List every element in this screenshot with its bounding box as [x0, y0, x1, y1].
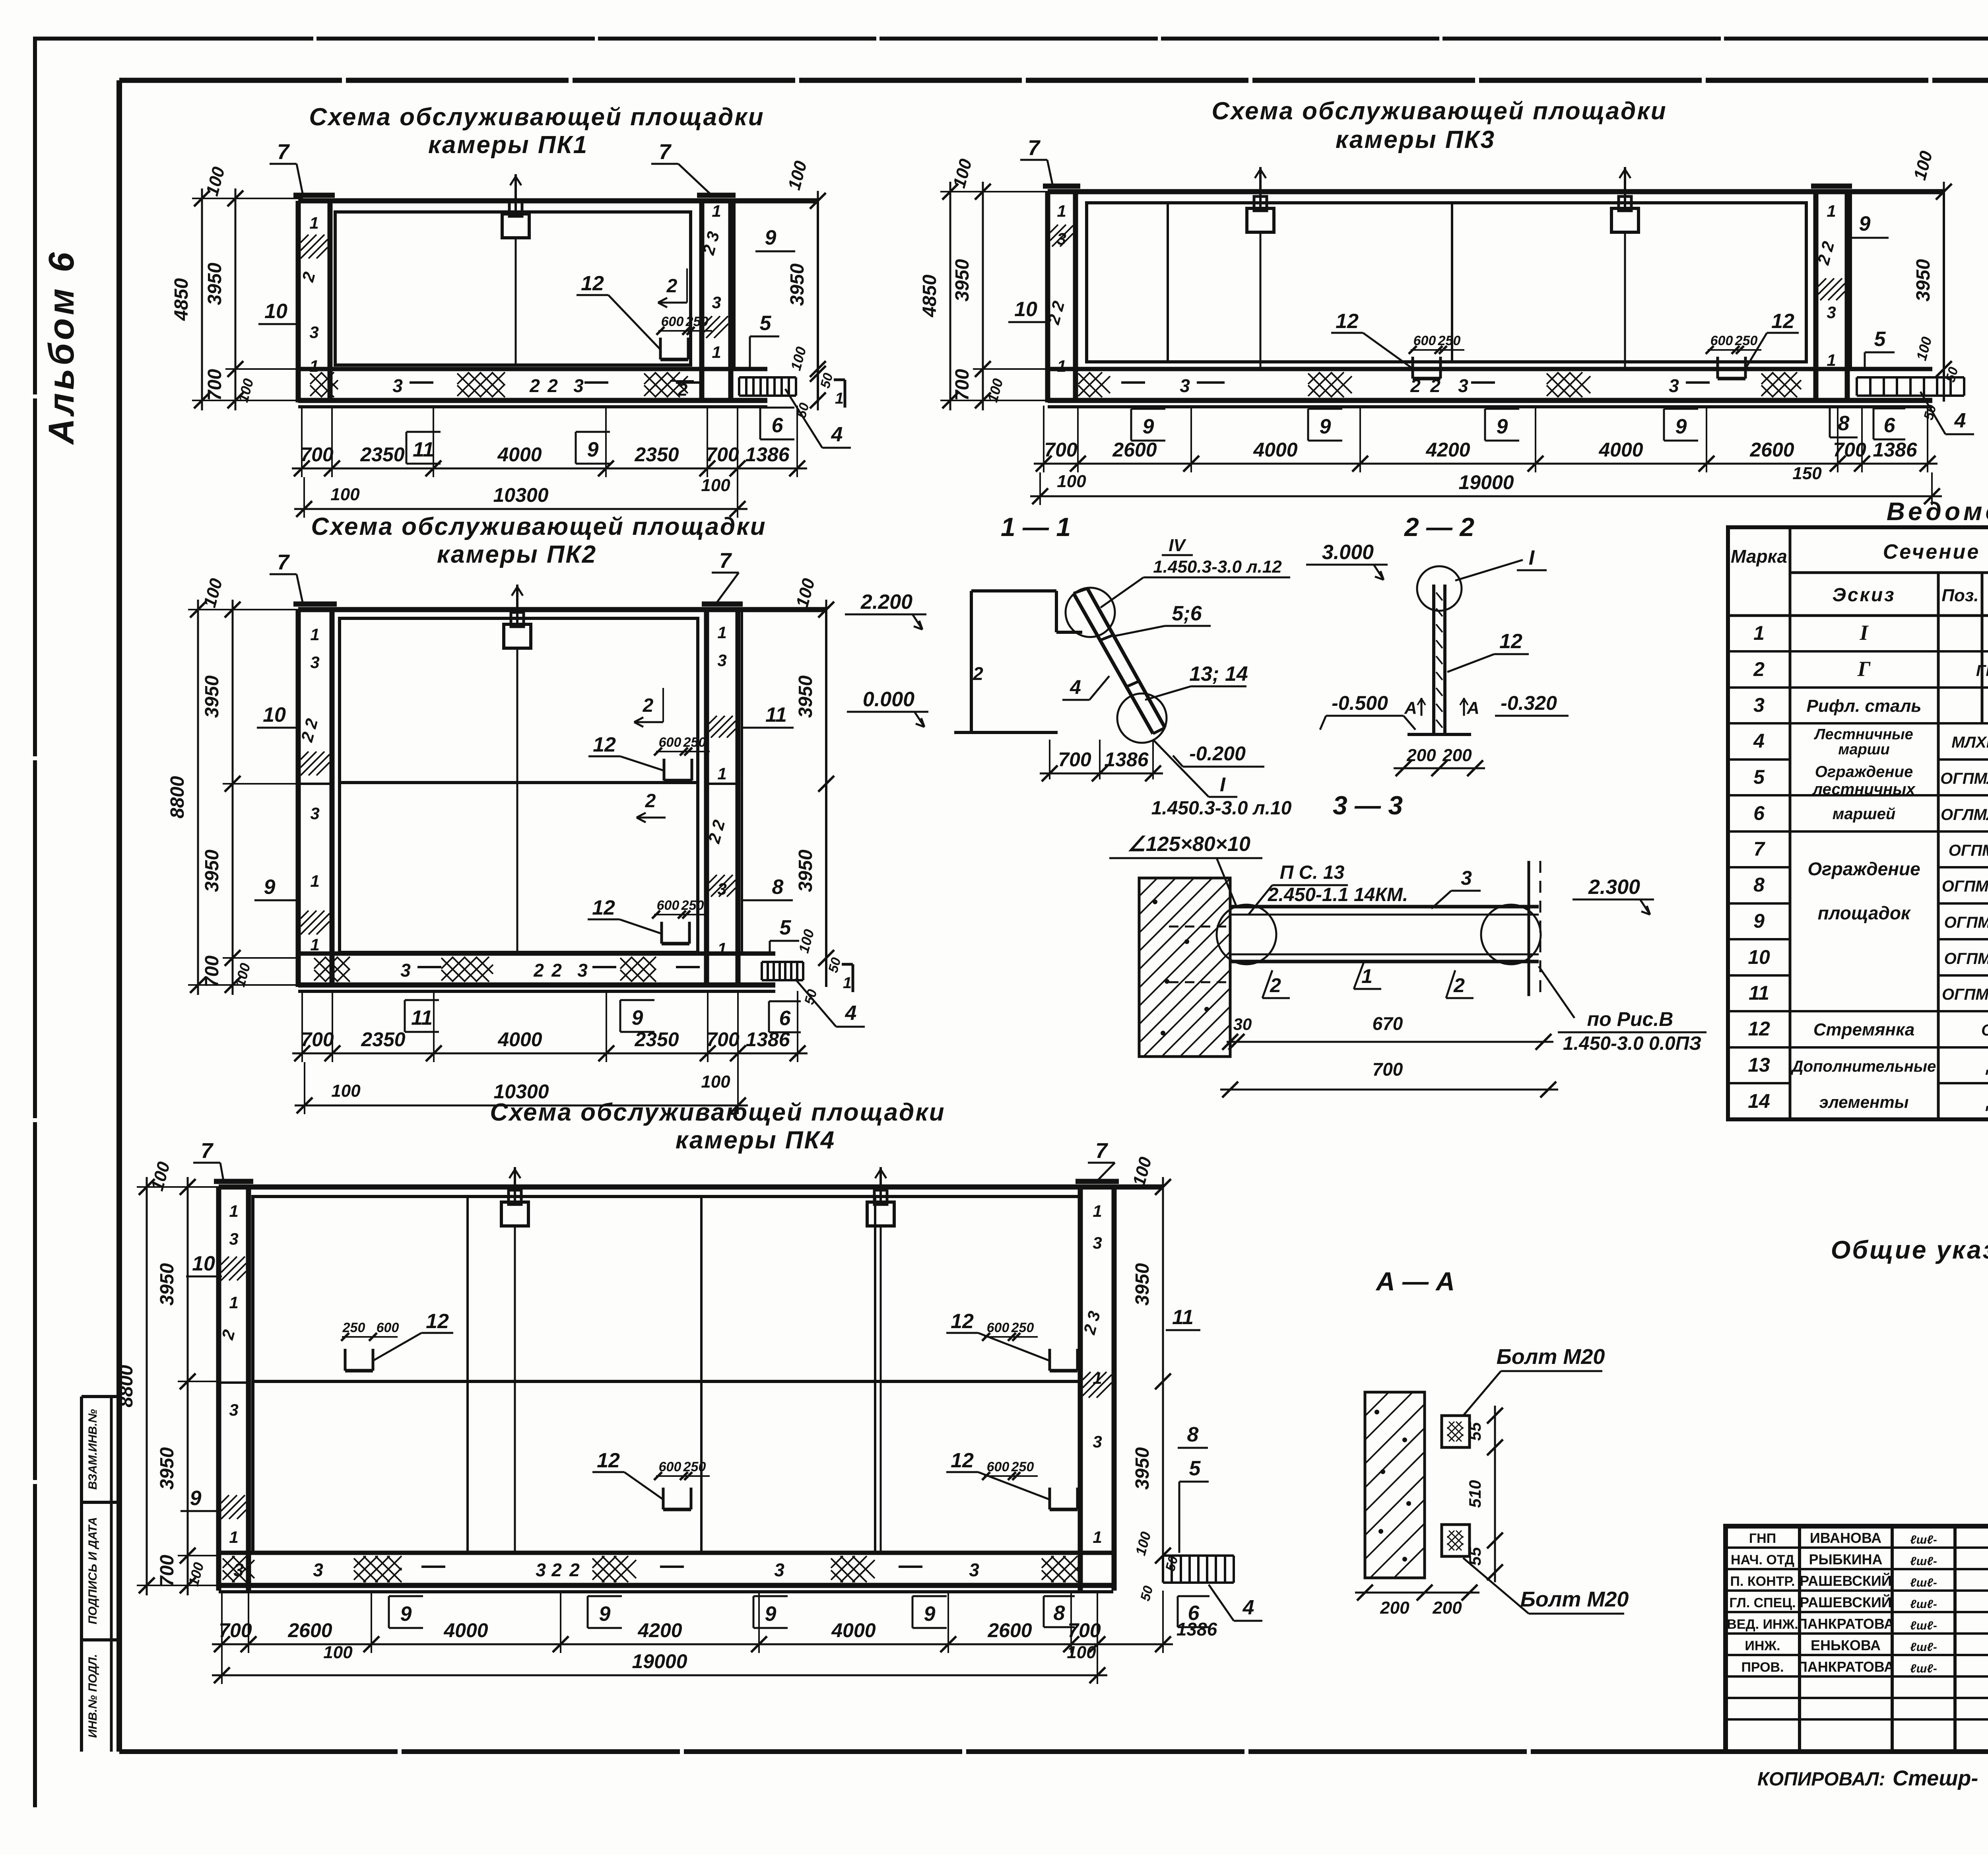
svg-text:6: 6 [779, 1007, 791, 1030]
svg-text:1386: 1386 [1104, 748, 1149, 771]
svg-text:∠125×80×10: ∠125×80×10 [1127, 833, 1250, 856]
PK4 floor arrows [421, 1566, 922, 1568]
svg-text:12: 12 [1748, 1018, 1770, 1040]
svg-text:5: 5 [780, 916, 792, 939]
svg-text:А — А: А — А [1375, 1266, 1455, 1296]
svg-text:30: 30 [1233, 1015, 1252, 1033]
PK2 box 6 [769, 1001, 801, 1032]
PK2 label 4 [795, 979, 865, 1027]
PK3 bay dividers [1168, 203, 1452, 362]
svg-text:2350: 2350 [634, 1028, 679, 1051]
svg-text:12: 12 [426, 1310, 449, 1333]
svg-text:11: 11 [411, 1006, 433, 1030]
svg-text:3: 3 [774, 1560, 784, 1580]
PK2 right dims [792, 576, 844, 1006]
svg-text:3950: 3950 [1132, 1447, 1153, 1490]
general note [1831, 1235, 1988, 1264]
svg-text:ℓшℓ-: ℓшℓ- [1910, 1576, 1937, 1589]
svg-text:камеры ПК3: камеры ПК3 [1336, 126, 1495, 153]
svg-text:3: 3 [229, 1401, 238, 1419]
svg-text:6: 6 [1884, 414, 1896, 437]
svg-text:ℓшℓ-: ℓшℓ- [1910, 1598, 1937, 1611]
svg-text:ℓшℓ-: ℓшℓ- [1910, 1533, 1937, 1546]
section 3-3 labels 2-1-2 [1262, 962, 1474, 998]
svg-text:ВЗАМ.ИНВ.№: ВЗАМ.ИНВ.№ [86, 1409, 99, 1490]
PK4 bottom dims row2 [212, 1643, 1107, 1683]
svg-text:2: 2 [547, 375, 558, 396]
svg-text:5;6: 5;6 [1172, 602, 1202, 625]
svg-text:3950: 3950 [157, 1447, 178, 1490]
svg-text:3 — 3: 3 — 3 [1333, 791, 1403, 820]
PK2 mid line [298, 783, 738, 784]
PK2 chamber liner [332, 618, 707, 954]
section 3-3 elevation 2.300 [1573, 876, 1654, 915]
section 1-1 title [1001, 512, 1071, 542]
section A-A note bolt M20 top [1463, 1345, 1605, 1416]
svg-text:3: 3 [392, 375, 403, 396]
PK1 label 4 [785, 389, 851, 448]
PK1 dim 600-250 [656, 314, 712, 335]
section 1-1 elevation 2.200 [845, 591, 926, 629]
svg-text:А: А [1404, 698, 1417, 718]
PK1 bottom dims row1 [292, 443, 807, 476]
svg-text:4: 4 [1753, 730, 1765, 752]
svg-text:9: 9 [1320, 415, 1331, 438]
svg-text:5: 5 [1189, 1457, 1201, 1480]
svg-text:камеры ПК1: камеры ПК1 [428, 131, 588, 159]
svg-text:7: 7 [277, 550, 290, 574]
title block grid left [1726, 1526, 1988, 1752]
svg-text:ℓшℓ-: ℓшℓ- [1910, 1641, 1937, 1654]
PK3 vent 1 [1247, 167, 1274, 369]
svg-text:5: 5 [1753, 766, 1765, 788]
svg-text:8800: 8800 [116, 1365, 137, 1407]
svg-text:НАЧ. ОТД: НАЧ. ОТД [1731, 1552, 1794, 1568]
svg-text:1: 1 [1057, 357, 1066, 375]
PK2 label 7 left [270, 550, 303, 604]
svg-text:Стешр-: Стешр- [1893, 1766, 1978, 1790]
svg-text:IV: IV [1169, 536, 1186, 555]
svg-text:700: 700 [1373, 1059, 1403, 1080]
PK4 ladder [1163, 1556, 1234, 1583]
PK4 vent 2 [867, 1167, 894, 1551]
PK4 label 4 [1209, 1585, 1262, 1621]
svg-text:13: 13 [1748, 1054, 1770, 1076]
kopiroval note [1757, 1766, 1978, 1790]
PK1 left dim 4850 [171, 188, 210, 410]
svg-text:2: 2 [643, 695, 654, 716]
svg-text:3: 3 [573, 375, 584, 396]
svg-text:3: 3 [1093, 1233, 1102, 1252]
svg-text:2: 2 [645, 791, 656, 812]
svg-text:1: 1 [1753, 622, 1765, 644]
svg-text:ГНП: ГНП [1749, 1531, 1776, 1546]
svg-text:8800: 8800 [167, 776, 188, 818]
PK3 bottom dims row2 [1030, 464, 1942, 504]
table col sostav [1940, 624, 1988, 1111]
svg-text:1: 1 [309, 357, 318, 375]
PK4 label 10 [186, 1252, 222, 1276]
svg-text:1.450.3-3.0 л.12: 1.450.3-3.0 л.12 [1153, 557, 1282, 577]
svg-text:12: 12 [951, 1449, 974, 1472]
PK4 top line [219, 1185, 1163, 1190]
PK3 ladder [1857, 377, 1964, 396]
svg-text:4000: 4000 [497, 1028, 542, 1051]
svg-text:ПАНКРАТОВА: ПАНКРАТОВА [1797, 1659, 1894, 1675]
svg-text:3950: 3950 [795, 849, 816, 892]
svg-text:200: 200 [1380, 1598, 1409, 1618]
svg-text:1: 1 [717, 623, 726, 642]
svg-text:2350: 2350 [361, 1028, 405, 1051]
PK4 boxes 9 [389, 1596, 1075, 1628]
PK4 right dims [1129, 1155, 1181, 1603]
PK4 mid line [219, 1381, 1080, 1383]
svg-text:-0.500: -0.500 [1332, 692, 1388, 714]
svg-text:9: 9 [587, 438, 599, 461]
svg-text:9: 9 [765, 1603, 777, 1626]
svg-text:Лестничные: Лестничные [1813, 726, 1913, 743]
svg-text:РАШЕВСКИЙ: РАШЕВСКИЙ [1800, 1594, 1891, 1610]
section 1-1 label 2 [971, 660, 983, 692]
PK3 vent 2 [1611, 167, 1639, 369]
svg-text:1: 1 [1093, 1528, 1102, 1546]
svg-text:3950: 3950 [204, 262, 225, 305]
svg-text:100: 100 [331, 1081, 361, 1101]
svg-text:150: 150 [1792, 464, 1822, 483]
svg-text:3: 3 [717, 651, 726, 670]
svg-text:2: 2 [533, 960, 544, 981]
svg-text:8: 8 [1753, 874, 1765, 896]
svg-text:9: 9 [1143, 415, 1154, 438]
svg-text:Ограждение: Ограждение [1807, 859, 1920, 879]
PK3 box 6 [1873, 408, 1905, 439]
PK1 bottom dims row2 [294, 476, 747, 517]
svg-text:по Рис.В: по Рис.В [1587, 1008, 1673, 1030]
svg-text:3950: 3950 [157, 1263, 178, 1305]
PK4 right wall [1076, 1181, 1119, 1591]
album label [42, 249, 82, 445]
svg-text:I: I [1220, 773, 1226, 796]
section A-A bolt top [1442, 1416, 1470, 1447]
PK3 left dim 4850 [919, 182, 958, 410]
svg-text:Схема обслуживающей площадки: Схема обслуживающей площадки [490, 1099, 945, 1126]
section 3-3 note PS13 [1248, 862, 1415, 915]
svg-text:Общие указания см. лист 3: Общие указания см. лист 3 [1831, 1235, 1988, 1264]
svg-text:А: А [1466, 698, 1479, 718]
svg-text:камеры ПК2: камеры ПК2 [437, 541, 597, 568]
PK1 cut flag [834, 380, 845, 408]
svg-text:9: 9 [765, 226, 777, 249]
table title [1887, 497, 1988, 526]
svg-text:7: 7 [719, 549, 732, 573]
svg-text:9: 9 [1859, 212, 1871, 235]
svg-text:1: 1 [310, 625, 319, 644]
svg-text:-0.320: -0.320 [1501, 692, 1557, 714]
section 3-3 note ris [1539, 966, 1706, 1054]
svg-text:3950: 3950 [952, 259, 973, 301]
svg-text:700: 700 [204, 369, 225, 401]
svg-text:4850: 4850 [919, 274, 940, 317]
svg-text:700: 700 [202, 956, 223, 987]
svg-text:4000: 4000 [1598, 439, 1643, 461]
section 2-2 title [1404, 512, 1474, 542]
svg-text:1: 1 [229, 1293, 238, 1312]
section 2-2 elevation 3.000 [1306, 541, 1388, 580]
svg-text:Г: Г [1857, 657, 1871, 681]
svg-text:9: 9 [1753, 910, 1765, 932]
svg-text:2: 2 [666, 276, 678, 297]
PK3 floor [1048, 369, 1932, 407]
section 1-1 stair flight [1066, 588, 1167, 743]
title block signatures [1727, 1530, 1937, 1675]
PK1 label 7 left [270, 140, 303, 195]
PK4 bay dividers [468, 1197, 875, 1551]
PK1 box 6 [760, 408, 794, 439]
svg-text:4200: 4200 [637, 1619, 682, 1641]
svg-text:элементы: элементы [1819, 1093, 1908, 1111]
svg-text:МЛХШ60 -24.6: МЛХШ60 -24.6 [1951, 734, 1988, 751]
svg-text:10: 10 [1014, 298, 1037, 321]
svg-text:2350: 2350 [360, 443, 404, 466]
svg-text:3950: 3950 [202, 675, 223, 718]
svg-text:1: 1 [712, 343, 721, 361]
PK2 label 5 [770, 916, 799, 954]
svg-text:10: 10 [192, 1252, 215, 1275]
svg-text:3950: 3950 [1913, 259, 1934, 301]
PK1 label 7 right [651, 140, 712, 195]
svg-text:площадок: площадок [1818, 903, 1911, 923]
svg-text:Эскиз: Эскиз [1832, 585, 1895, 606]
svg-text:14: 14 [1748, 1090, 1770, 1112]
svg-text:3: 3 [969, 1560, 979, 1580]
PK2 floor [298, 954, 775, 991]
PK1 vent [502, 174, 529, 365]
PK4 vent 1 [501, 1167, 528, 1551]
PK1 box 11 [406, 432, 441, 464]
svg-text:200: 200 [1406, 746, 1436, 765]
svg-text:200: 200 [1442, 746, 1472, 765]
PK3 left dim 3950 [949, 157, 1006, 410]
svg-text:4000: 4000 [831, 1619, 876, 1641]
svg-text:4: 4 [1070, 676, 1081, 698]
section A-A bolt bottom [1442, 1525, 1470, 1556]
PK4 chamber liner [248, 1197, 1080, 1553]
svg-text:3: 3 [229, 1230, 238, 1248]
svg-text:4850: 4850 [171, 278, 192, 321]
PK3 label 5 [1865, 328, 1895, 370]
svg-text:Сечение: Сечение [1883, 540, 1980, 563]
svg-text:13; 14: 13; 14 [1189, 662, 1248, 686]
PK4 left dim 3950 [148, 1160, 207, 1595]
svg-text:3950: 3950 [787, 263, 808, 306]
svg-text:ОГПМХЭб-10.48: ОГПМХЭб-10.48 [1944, 950, 1988, 967]
svg-text:СХ- 34: СХ- 34 [1981, 1022, 1988, 1039]
svg-text:1: 1 [309, 214, 318, 232]
svg-text:2: 2 [678, 380, 688, 400]
svg-text:7: 7 [1753, 838, 1765, 860]
PK2 label 12 a [588, 733, 710, 781]
section 1-1 dims [1040, 740, 1163, 781]
svg-text:5: 5 [760, 312, 772, 335]
section 1-1 note 5-6 [1113, 602, 1211, 636]
svg-text:4: 4 [845, 1002, 857, 1025]
svg-text:Схема обслуживающей площадки: Схема обслуживающей площадки [311, 513, 766, 540]
svg-text:9: 9 [924, 1603, 936, 1626]
PK1 ladder [739, 377, 796, 396]
section A-A dims bottom [1355, 1585, 1479, 1618]
section 1-1 note I [1151, 740, 1292, 819]
svg-text:2.450-1.1 14КМ.: 2.450-1.1 14КМ. [1268, 884, 1408, 905]
svg-text:4: 4 [831, 423, 843, 446]
svg-text:2600: 2600 [987, 1619, 1032, 1641]
svg-text:Стремянка: Стремянка [1813, 1020, 1915, 1039]
svg-text:3: 3 [313, 1560, 323, 1580]
svg-text:1: 1 [843, 974, 852, 992]
svg-text:1386: 1386 [1873, 439, 1917, 461]
svg-text:1: 1 [712, 202, 721, 220]
svg-text:6: 6 [772, 414, 784, 437]
svg-text:ПАНКРАТОВА: ПАНКРАТОВА [1797, 1616, 1894, 1632]
svg-text:П. КОНТР.: П. КОНТР. [1730, 1574, 1795, 1589]
svg-text:Болт М20: Болт М20 [1497, 1345, 1605, 1369]
svg-text:12: 12 [1771, 310, 1794, 333]
table col marka [1748, 622, 1770, 1112]
PK3 label 12 a [1331, 310, 1464, 379]
PK1 floor [298, 369, 767, 407]
PK4 label 11 [1166, 1306, 1200, 1330]
PK4 strem ul [341, 1310, 453, 1371]
svg-text:лестничных: лестничных [1812, 781, 1916, 798]
svg-text:2: 2 [551, 960, 562, 981]
PK2 box 9 [620, 1000, 654, 1032]
svg-text:100: 100 [701, 1072, 730, 1092]
svg-text:11: 11 [1749, 982, 1769, 1004]
svg-text:9: 9 [632, 1006, 643, 1030]
svg-text:10: 10 [264, 300, 287, 323]
section 2-2 ground [1408, 733, 1471, 736]
svg-text:8: 8 [1054, 1602, 1065, 1625]
svg-text:2.200: 2.200 [860, 591, 912, 614]
svg-text:Ограждение: Ограждение [1815, 763, 1913, 781]
PK3 platform edge [1851, 192, 1944, 402]
svg-text:12: 12 [592, 896, 615, 919]
svg-text:3: 3 [400, 960, 411, 981]
PK2 label 8 [742, 876, 793, 900]
PK2 floor arrows [417, 966, 700, 968]
PK3 label 4 [1920, 392, 1974, 434]
svg-text:3: 3 [310, 653, 319, 672]
svg-text:2.300: 2.300 [1588, 876, 1640, 899]
svg-text:19000: 19000 [1458, 471, 1514, 493]
svg-text:3: 3 [1093, 1432, 1102, 1451]
svg-text:10: 10 [1748, 946, 1770, 968]
svg-text:ЕНЬКОВА: ЕНЬКОВА [1811, 1637, 1881, 1653]
svg-text:3: 3 [1180, 375, 1190, 396]
svg-text:700: 700 [1068, 1619, 1101, 1641]
svg-text:ГЛ. СПЕЦ.: ГЛ. СПЕЦ. [1729, 1595, 1796, 1610]
PK2 right wall [702, 604, 743, 987]
svg-text:ИНЖ.: ИНЖ. [1745, 1638, 1780, 1653]
PK4 label 7 left [193, 1139, 223, 1181]
svg-text:7: 7 [1095, 1139, 1109, 1163]
svg-text:1: 1 [229, 1528, 238, 1546]
PK4 label 7 right [1088, 1139, 1115, 1181]
PK3 right wall [1811, 186, 1852, 402]
svg-text:55: 55 [1466, 1422, 1484, 1441]
PK1 platform right edge [734, 201, 818, 402]
PK4 floor [219, 1553, 1113, 1592]
svg-text:5: 5 [1874, 328, 1886, 351]
svg-text:10: 10 [263, 703, 286, 726]
svg-text:КОПИРОВАЛ:: КОПИРОВАЛ: [1757, 1769, 1885, 1790]
svg-text:Альбом 6: Альбом 6 [42, 249, 82, 445]
PK2 label 11 [742, 703, 794, 728]
svg-text:2: 2 [569, 1560, 580, 1580]
section 2-2 elevation -0.500 [1320, 692, 1415, 730]
PK2 label 12 b [588, 896, 708, 944]
svg-text:19000: 19000 [632, 1650, 687, 1672]
svg-text:2: 2 [529, 375, 540, 396]
section 3-3 beam [1217, 861, 1541, 996]
section 3-3 title [1333, 791, 1403, 820]
svg-text:2: 2 [1270, 974, 1281, 996]
svg-text:ИНВ.№ ПОДЛ.: ИНВ.№ ПОДЛ. [86, 1654, 99, 1738]
svg-text:10300: 10300 [493, 484, 548, 506]
svg-text:100: 100 [323, 1643, 353, 1662]
section 1-1 elevation 0.000 [847, 688, 928, 727]
PK2 label 9 left [254, 876, 298, 900]
table grid [1728, 527, 1988, 1119]
svg-text:2: 2 [551, 1560, 562, 1580]
svg-text:ОГПМХЭ б-10.60: ОГПМХЭ б-10.60 [1942, 986, 1988, 1003]
PK3 extension lines [940, 192, 1932, 505]
svg-text:700: 700 [157, 1555, 178, 1587]
svg-text:ПРОВ.: ПРОВ. [1741, 1660, 1784, 1675]
svg-text:ℓшℓ-: ℓшℓ- [1910, 1662, 1937, 1675]
PK1 right dims [784, 159, 836, 420]
PK4 strem lr [946, 1449, 1077, 1509]
svg-text:1: 1 [1827, 202, 1836, 220]
PK1 top line [298, 198, 818, 204]
section 2-2 dims [1394, 746, 1485, 776]
svg-text:маршей: маршей [1833, 805, 1896, 823]
PK3 bottom dims row1 [1034, 439, 1938, 472]
svg-text:8: 8 [1838, 412, 1850, 435]
svg-text:1: 1 [1827, 351, 1836, 369]
svg-text:ОГПМХЭб-10.42: ОГПМХЭб-10.42 [1944, 914, 1988, 931]
PK1 left wall [293, 195, 335, 402]
PK3 label 12 b [1706, 310, 1799, 379]
svg-text:9: 9 [400, 1603, 412, 1626]
table col eskiz [1791, 621, 1936, 1111]
svg-text:9: 9 [264, 876, 276, 899]
PK1 box 9 [576, 432, 610, 464]
PK4 label 8 [1178, 1423, 1208, 1448]
svg-text:2: 2 [1753, 658, 1765, 680]
PK4 left dim 8800 [116, 1177, 155, 1595]
svg-text:7: 7 [201, 1139, 214, 1163]
section 1-1 wall [954, 591, 1082, 732]
PK3 chamber liner [1076, 203, 1816, 369]
section 3-3 note angle [1109, 833, 1262, 907]
PK4 left wall [214, 1181, 253, 1591]
svg-text:ОГЛМЛХ60-10.24: ОГЛМЛХ60-10.24 [1941, 806, 1988, 824]
svg-text:700: 700 [952, 369, 973, 401]
PK2 label 7 right [712, 549, 739, 604]
PK2 bottom dims row2 [295, 1072, 748, 1113]
svg-text:камеры ПК4: камеры ПК4 [676, 1127, 835, 1154]
PK3 label 10 [1008, 298, 1048, 322]
